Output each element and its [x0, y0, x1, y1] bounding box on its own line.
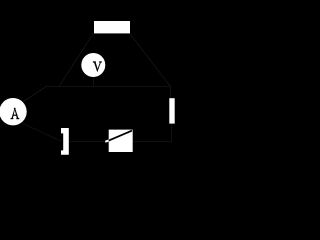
ammeter letter A — [11, 108, 20, 119]
resistor R1 (top filled bar) — [94, 21, 130, 33]
voltmeter V1 circle — [81, 53, 105, 77]
wire: ammeter top-right diagonal to node J1 — [23, 86, 47, 102]
wire: diagonal from resistor right end down to bus right corner — [129, 33, 170, 87]
battery B1 plate — [169, 98, 174, 123]
wire: bottom bus right segment (corner to rheostat) — [132, 141, 172, 143]
ammeter A1 circle — [0, 98, 27, 125]
wire: bottom bus middle segment (rheostat to switch) — [69, 141, 109, 143]
wire: main horizontal bus y=86 — [47, 86, 171, 88]
wire: right vertical bus top to battery — [170, 87, 172, 99]
rheostat R2 diagonal arrow — [109, 131, 132, 141]
wire: diagonal from resistor left end down to bus — [59, 33, 94, 87]
switch S1 (bracket shaped element) — [61, 128, 69, 155]
wire: voltmeter stub to bus — [93, 75, 95, 87]
voltmeter letter V — [93, 61, 102, 72]
wire: switch left diagonal up to ammeter — [23, 123, 61, 141]
rheostat R2 slider lead (white part outside box) — [105, 140, 109, 142]
rheostat R2 body — [109, 130, 133, 152]
wire: battery bottom down to bottom bus — [171, 123, 173, 142]
